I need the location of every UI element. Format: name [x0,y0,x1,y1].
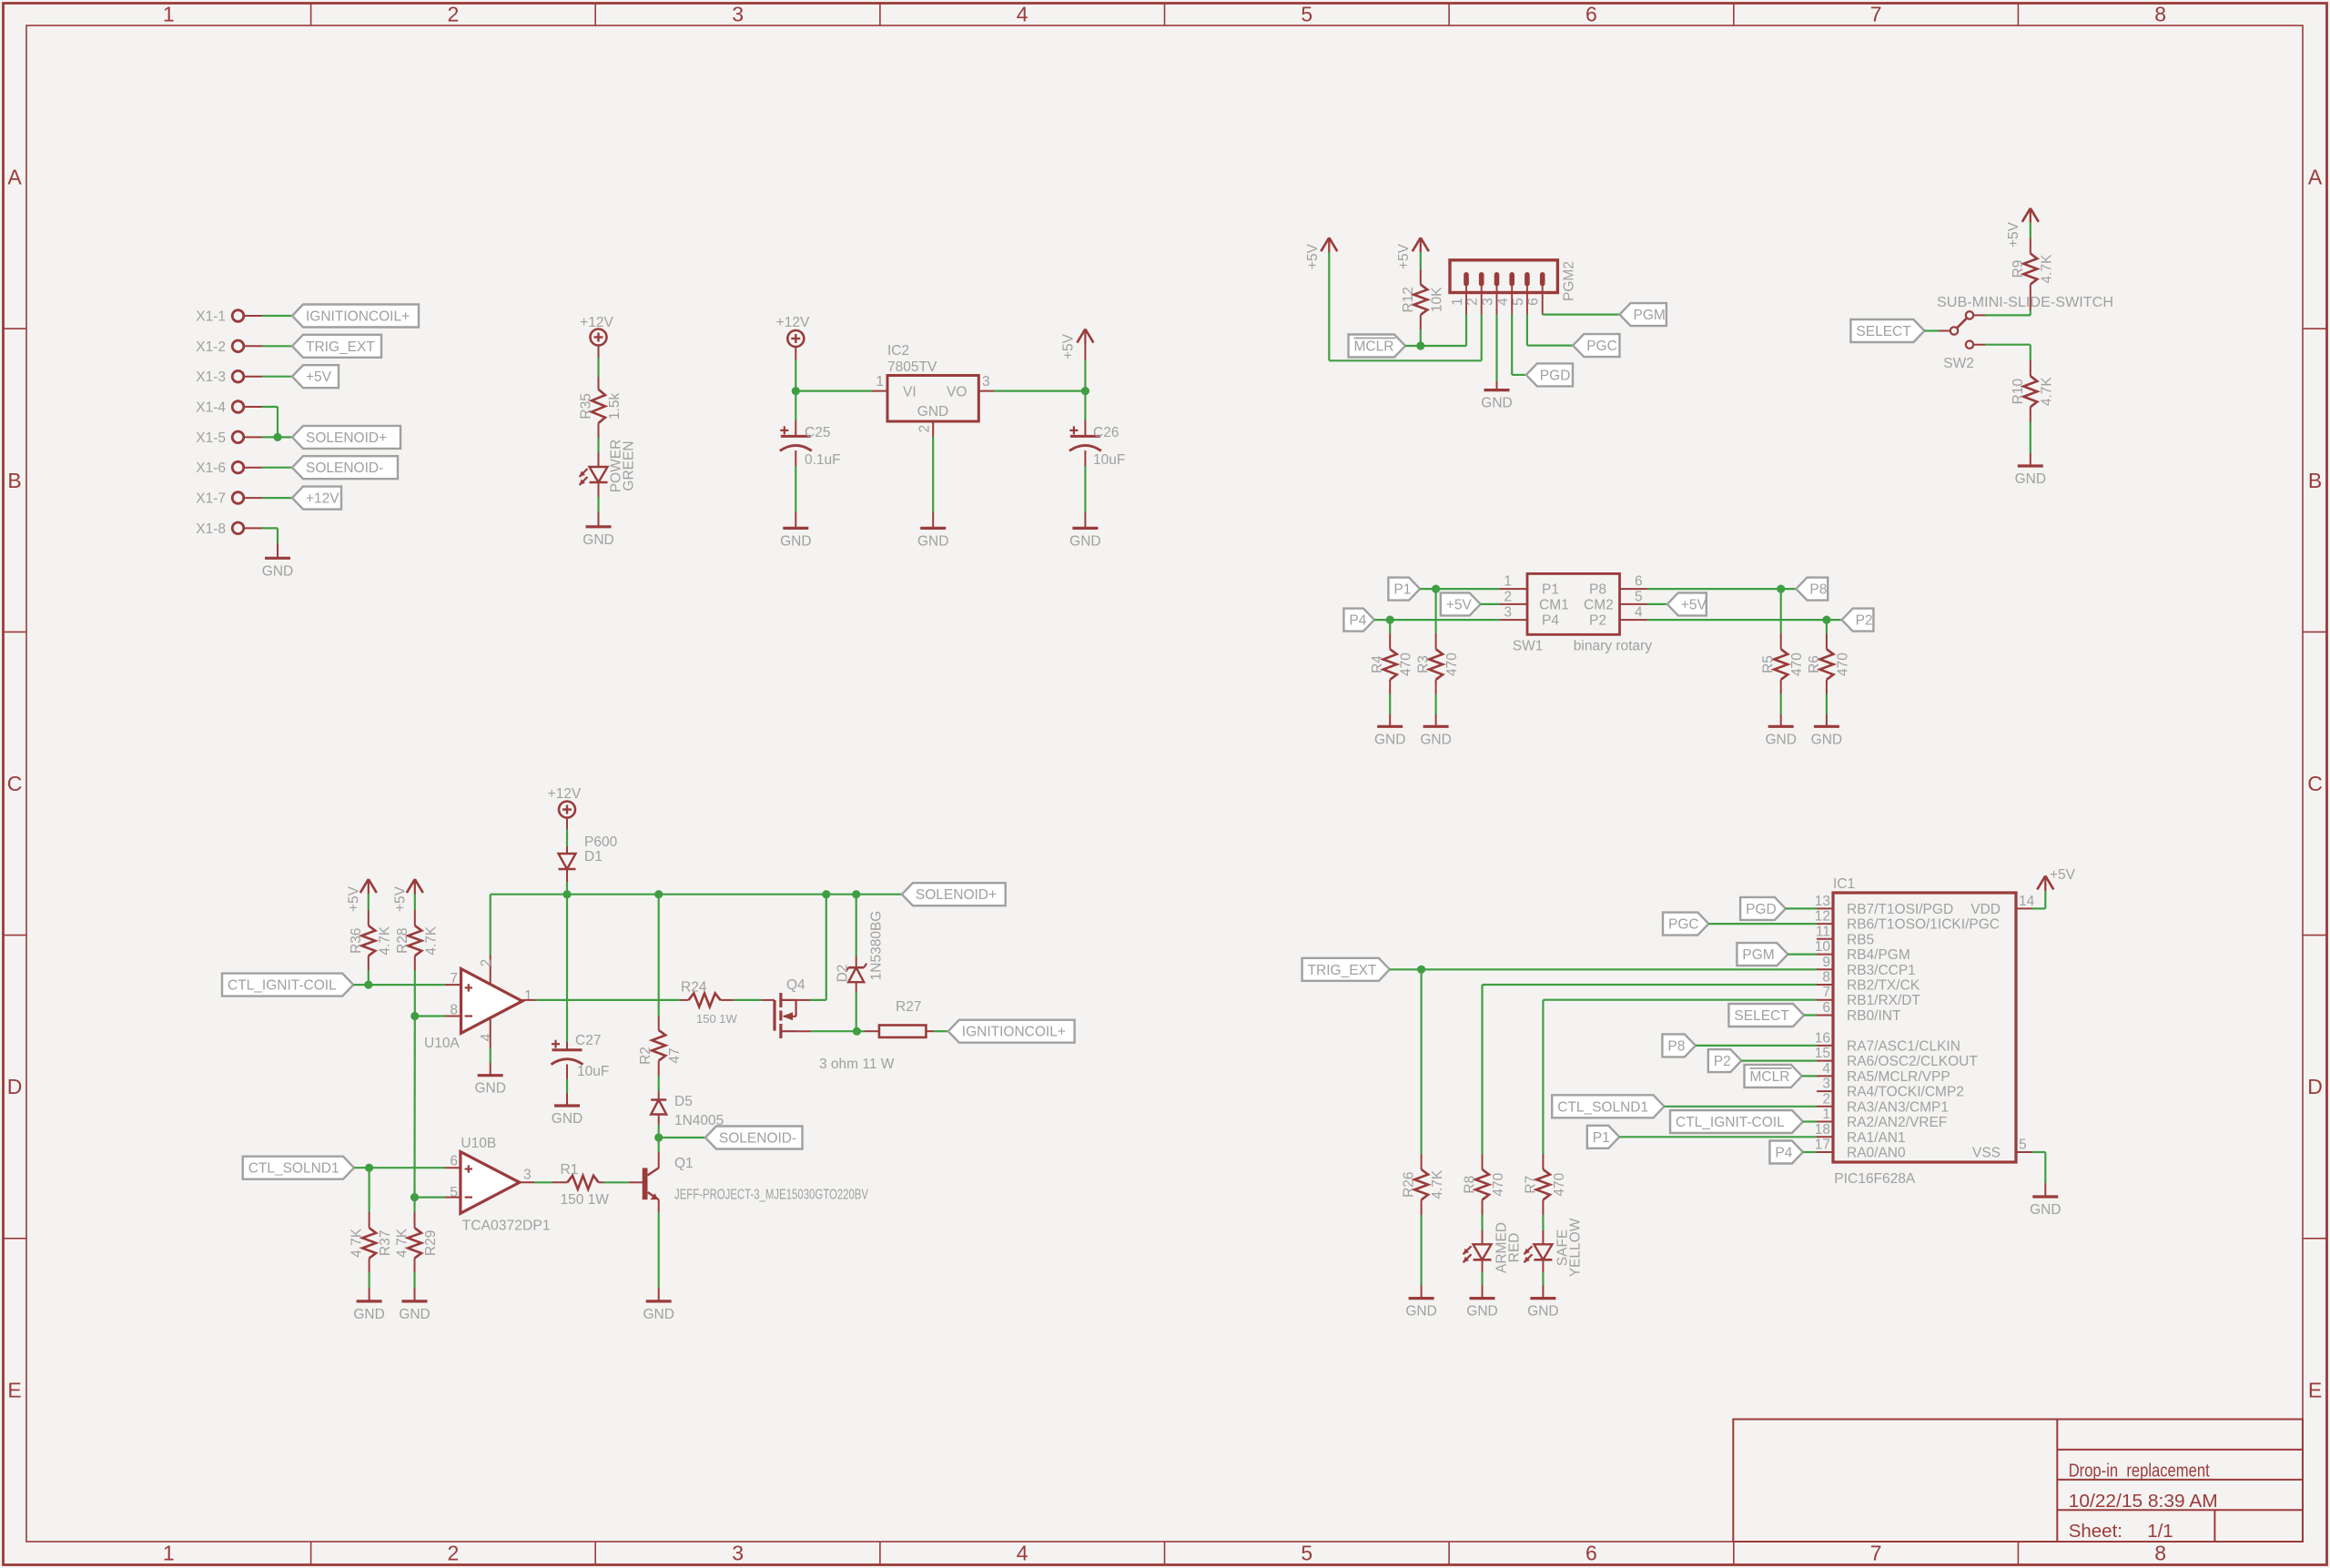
flag PGD at IC1 [1740,897,1786,920]
svg-text:X1-6: X1-6 [196,460,226,476]
svg-text:PIC16F628A: PIC16F628A [1834,1171,1916,1187]
svg-text:P1: P1 [1542,582,1559,598]
svg-text:3: 3 [1822,1077,1830,1092]
svg-text:P600: P600 [584,835,618,850]
svg-text:+5V: +5V [2050,867,2076,883]
resistor R24 [681,980,738,1027]
resistor R35 [579,389,623,423]
svg-text:5: 5 [1301,3,1312,26]
wire TRIG_EXT to pin 9 [1390,968,1817,970]
svg-text:RA6/OSC2/CLKOUT: RA6/OSC2/CLKOUT [1847,1054,1978,1069]
ground below IC2 [920,527,946,530]
resistor R26 [1402,1169,1446,1199]
flag +5V at SW1 right [1667,592,1707,615]
IC1 pin 11 RB5 [1816,924,1874,947]
wire R24 to Q4 gate [721,999,775,1001]
svg-text:SW2: SW2 [1943,356,1974,371]
svg-text:TCA0372DP1: TCA0372DP1 [462,1219,551,1234]
svg-text:U10B: U10B [461,1136,496,1151]
svg-text:GND: GND [2015,471,2046,487]
svg-text:P2: P2 [1589,613,1606,629]
svg-text:RA2/AN2/VREF: RA2/AN2/VREF [1847,1115,1947,1130]
connector pin X1-5 [196,430,244,446]
flag SOLENOID- at Q1 [705,1127,803,1149]
wire P1 to SW1 pin 1 [1420,588,1500,590]
svg-text:YELLOW: YELLOW [1567,1218,1583,1277]
wire pin8 node to U10A pin 8 [415,1015,461,1017]
wire PGM2 pin 4 to PGD [1512,315,1526,375]
svg-text:3: 3 [1481,298,1496,306]
supply +5V left of R12 [1305,238,1337,269]
junction X1-4/X1-5 [273,433,281,441]
wire SAFE LED to GND [1542,1259,1544,1298]
switch SW2 [1943,311,1974,371]
svg-text:B: B [2308,469,2322,492]
svg-text:8: 8 [2154,1542,2166,1565]
wire +12V to D1 [566,817,568,855]
wire R26 to GND [1421,1199,1423,1298]
wire MCLR flag to node [1405,345,1421,347]
svg-text:5: 5 [1635,589,1643,604]
svg-text:PGD: PGD [1746,902,1777,917]
wire R35 to LED [598,423,600,467]
wire node to PGM2 pin 1 [1421,315,1466,346]
resistor R36 [349,926,393,956]
svg-text:R7: R7 [1523,1176,1538,1194]
svg-text:4.7K: 4.7K [349,1228,365,1258]
wire CTL_SOLND1 to pin 2 [1665,1106,1818,1108]
IC1 pin 13 RB7/T1OSI/PGD [1815,894,1953,917]
svg-text:5: 5 [1301,1542,1312,1565]
svg-text:+5V: +5V [392,885,408,912]
svg-text:470: 470 [1552,1172,1567,1196]
svg-text:RA0/AN0: RA0/AN0 [1847,1146,1906,1161]
IC1 pin 12 RB6/T1OSO/1ICKI/PGC [1815,909,2000,933]
svg-text:RB0/INT: RB0/INT [1847,1008,1901,1024]
svg-text:D: D [2307,1075,2323,1098]
flag IGNITIONCOIL+ at R27 [948,1020,1075,1043]
wire rail to R2 [658,895,660,1030]
junction C26/VO [1081,387,1089,395]
svg-text:Q1: Q1 [674,1156,694,1171]
ground below R37 [357,1300,382,1302]
svg-text:7: 7 [1870,1542,1882,1565]
svg-text:2: 2 [1504,589,1512,604]
svg-text:10K: 10K [1429,287,1444,312]
SW1 right pin 5 [1620,589,1648,604]
svg-text:P1: P1 [1393,582,1411,598]
IC1 pin 14 VDD [1970,894,2034,917]
flag MCLR at PGM2 [1349,335,1406,358]
connector pin X1-8 [196,521,244,537]
junction D2/rail [852,890,860,898]
wire SW1 pin 6 to P8 [1647,588,1796,590]
resistor R9 [2011,254,2055,285]
PGM2 pin 1 lead [1450,286,1466,315]
wire +5V to R36 [368,894,370,926]
diode D1 P600 [559,835,618,869]
junction R37/input [365,1164,373,1172]
svg-text:R28: R28 [395,927,410,953]
IC1 pin 16 RA7/ASC1/CLKIN [1815,1030,1960,1054]
wire P2 to pin 15 [1741,1059,1817,1061]
svg-text:GND: GND [1374,732,1405,747]
svg-text:12: 12 [1815,909,1830,925]
wire R28 to U10A pin 8 node [414,956,416,1016]
svg-text:RA4/TOCKI/CMP2: RA4/TOCKI/CMP2 [1847,1085,1964,1100]
svg-text:PGC: PGC [1668,917,1699,933]
svg-text:4: 4 [1635,605,1643,621]
flag CTL_SOLND1 at U10B [243,1157,354,1179]
resistor R37 [349,1228,394,1258]
svg-text:GND: GND [917,533,948,549]
wire R29 node down [413,1198,415,1229]
wire U10A pin 4 to GND [490,1018,491,1076]
supply +5V above R36 [346,879,377,912]
svg-text:C26: C26 [1093,425,1119,440]
ground below POWER LED [586,525,612,528]
wire VI node to C25 [795,391,796,437]
svg-text:P2: P2 [1856,613,1873,629]
svg-text:+12V: +12V [306,491,339,507]
svg-text:3: 3 [732,3,744,26]
supply +5V above R28 [392,879,423,912]
junction Q4 drain/rail [822,890,830,898]
svg-text:RB5: RB5 [1847,932,1874,947]
svg-text:X1-2: X1-2 [196,339,226,355]
junction MCLR/R12 [1416,341,1424,349]
wire R8 to ARMED LED [1482,1199,1484,1244]
svg-text:MCLR: MCLR [1354,339,1394,355]
PGM2 pin 6 lead [1526,286,1543,315]
svg-text:3: 3 [523,1168,532,1183]
wire node to R27 [856,1030,879,1032]
flag CTL_IGNIT-COIL at IC1 [1670,1110,1803,1133]
flag P8 at IC1 [1662,1034,1696,1057]
supply +12V at IC2 input [776,315,810,347]
svg-text:470: 470 [1399,652,1414,676]
svg-text:6: 6 [1585,1542,1597,1565]
svg-text:10uF: 10uF [1093,452,1125,468]
svg-text:P4: P4 [1775,1146,1792,1161]
svg-text:PGC: PGC [1586,339,1617,354]
wire PGM to pin 10 [1788,953,1817,955]
op-amp U10A [424,959,532,1051]
svg-text:D1: D1 [584,849,603,865]
ground below R29 [402,1300,428,1302]
wire MCLR to pin 4 [1802,1075,1817,1077]
SW1 left pin 1 [1500,574,1527,590]
svg-text:P2: P2 [1714,1054,1731,1069]
resistor R12 [1401,285,1445,315]
svg-text:7: 7 [1822,985,1830,1000]
wire X1-6 to SOLENOID- [244,467,292,469]
flag SOLENOID+ at rail [902,883,1006,905]
wire CTL_IGNIT-COIL to pin 1 [1803,1120,1817,1122]
svg-text:VO: VO [947,385,967,400]
wire +5V to R28 [414,894,416,926]
junction P2/R6 [1822,616,1830,624]
resistor R2 [638,1030,683,1065]
svg-text:VDD: VDD [1970,902,2001,917]
svg-text:P4: P4 [1542,613,1559,629]
voltage regulator IC2 7805TV [876,343,989,432]
wire VO node to +5V [1084,343,1086,391]
rotary switch SW1 [1513,573,1652,653]
wire +12V to R35 [598,345,600,389]
flag SOLENOID- at X1-6 [292,456,398,479]
svg-text:GND: GND [643,1307,674,1322]
svg-text:10: 10 [1815,939,1831,955]
svg-text:X1-4: X1-4 [196,400,226,416]
svg-text:P1: P1 [1593,1130,1610,1146]
svg-text:RB7/T1OSI/PGD: RB7/T1OSI/PGD [1847,902,1953,917]
wire U10A output to R24 [522,999,689,1001]
op-amp U10B [450,1136,550,1234]
wire PGM2 pin 6 to PGM [1543,314,1620,316]
svg-text:1N5380BG: 1N5380BG [868,911,884,981]
svg-text:GND: GND [1527,1304,1558,1320]
svg-text:2: 2 [1822,1091,1830,1107]
svg-text:GND: GND [582,532,613,548]
ground below C25 [783,527,808,530]
svg-text:U10A: U10A [424,1036,460,1051]
wire C25 to GND [795,450,796,528]
SW1 left pin 3 [1500,605,1527,621]
svg-text:MCLR: MCLR [1750,1069,1790,1085]
IC1 pin 3 RA4/TOCKI/CMP2 [1817,1077,1964,1100]
supply +5V at IC2 output [1061,329,1094,359]
svg-text:1: 1 [876,374,884,389]
svg-text:SOLENOID-: SOLENOID- [306,460,383,476]
svg-text:GND: GND [917,404,948,420]
wire R37 to GND [369,1259,370,1301]
svg-text:X1-5: X1-5 [196,430,226,446]
svg-text:GND: GND [1481,396,1512,411]
svg-text:R27: R27 [896,999,921,1015]
flag CTL_IGNIT-COIL at U10A [222,974,353,996]
svg-text:CM1: CM1 [1539,597,1569,612]
IC1 pin 2 RA3/AN3/CMP1 [1817,1091,1949,1115]
svg-text:1.5k: 1.5k [607,393,623,420]
svg-text:GND: GND [2030,1202,2061,1218]
svg-text:X1-3: X1-3 [196,369,226,385]
svg-text:3: 3 [732,1542,744,1565]
junction P1/R3 [1432,585,1440,593]
svg-text:D: D [7,1075,23,1098]
svg-text:R9: R9 [2011,260,2026,278]
svg-text:PGM: PGM [1634,308,1666,323]
svg-text:10/22/15 8:39 AM: 10/22/15 8:39 AM [2069,1491,2218,1512]
svg-text:RB1/RX/DT: RB1/RX/DT [1847,993,1920,1008]
svg-text:4.7K: 4.7K [423,926,439,956]
svg-text:TRIG_EXT: TRIG_EXT [1308,963,1377,978]
svg-text:1: 1 [524,988,532,1004]
wire node to R5 [1780,589,1782,649]
svg-text:R29: R29 [423,1230,439,1256]
svg-text:16: 16 [1815,1030,1830,1046]
svg-text:+5V: +5V [1061,333,1077,359]
capacitor C26 [1069,425,1125,468]
svg-text:IC2: IC2 [887,343,909,359]
svg-text:470: 470 [1491,1172,1506,1196]
svg-text:C: C [2307,772,2323,795]
junction C25/VI [792,387,800,395]
flag PGC at IC1 [1663,913,1708,936]
svg-text:RA5/MCLR/VPP: RA5/MCLR/VPP [1847,1069,1950,1085]
wire IC2 pin 3 to VO node [978,390,1085,392]
flag +12V at X1-7 [292,487,341,510]
transistor Q4 MOSFET [775,977,805,1038]
svg-text:1: 1 [1504,574,1512,590]
svg-text:PGM2: PGM2 [1562,261,1577,301]
wire LED to GND [598,482,600,527]
IC1 pin 5 VSS [1972,1138,2032,1161]
connector pin X1-2 [196,339,244,355]
svg-text:SELECT: SELECT [1734,1008,1789,1024]
svg-text:4: 4 [1495,298,1511,306]
svg-text:GND: GND [1765,732,1796,747]
svg-text:8: 8 [2154,3,2166,26]
svg-text:2: 2 [917,425,933,433]
ground below C26 [1072,527,1098,530]
flag PGM at PGM2 [1620,303,1666,326]
svg-text:+12V: +12V [548,786,582,802]
svg-text:R2: R2 [638,1047,653,1065]
flag P1 at SW1 [1388,578,1420,601]
wire X1-2 to TRIG_EXT [244,345,292,347]
svg-text:CM2: CM2 [1584,597,1614,612]
PGM2 pin 3 lead [1481,286,1497,315]
svg-text:CTL_IGNIT-COIL: CTL_IGNIT-COIL [1676,1115,1785,1130]
wire U10A pin8 node down to U10B pin5 node [413,1017,415,1198]
supply +5V above R9 [2006,208,2039,248]
wire SW2 throw 2 to R10 [1974,345,2031,377]
svg-text:+5V: +5V [1446,597,1473,612]
ground below R10 [2018,464,2043,467]
SW1 left pin 2 [1500,589,1527,604]
junction P4/R4 [1386,616,1394,624]
wire IC2 pin 2 to GND [932,421,934,528]
svg-text:SELECT: SELECT [1856,324,1911,339]
svg-text:4: 4 [1822,1061,1830,1077]
wire +5V to R12 [1420,252,1422,285]
svg-text:R36: R36 [349,927,364,953]
svg-text:+12V: +12V [580,315,613,330]
svg-text:P4: P4 [1349,613,1366,629]
wire CTL_SOLND1 to U10B pin 6 [354,1167,461,1168]
svg-text:X1-7: X1-7 [196,491,226,507]
flag +5V at SW1 left [1441,592,1481,615]
svg-text:470: 470 [1835,652,1850,676]
svg-text:4.7K: 4.7K [2039,254,2054,284]
wire D1 to rail [566,869,568,895]
capacitor C25 [780,425,841,468]
svg-text:GND: GND [353,1307,384,1322]
svg-text:6: 6 [1585,3,1597,26]
svg-text:4: 4 [1017,3,1028,26]
wire VDD to +5V [2032,883,2045,908]
wire Q1 collector to SOLENOID- node [658,1138,660,1168]
IC1 pin 6 RB0/INT [1817,1000,1901,1024]
ground below R3 [1423,725,1449,728]
svg-text:R4: R4 [1370,655,1385,673]
wire VI node to IC2 pin 1 [795,390,887,392]
IC1 pin 7 RB1/RX/DT [1817,985,1920,1008]
svg-text:RA7/ASC1/CLKIN: RA7/ASC1/CLKIN [1847,1038,1960,1054]
wire D2 anode down [856,982,857,1031]
wire VSS to GND [2032,1152,2045,1197]
PGM2 pin 4 lead [1495,286,1512,315]
svg-text:Q4: Q4 [786,977,805,993]
svg-text:GND: GND [1811,732,1842,747]
wire SELECT to SW2 common [1924,329,1950,331]
svg-text:R35: R35 [579,393,594,419]
wire P1 to pin 18 [1619,1136,1817,1138]
IC1 pin 1 RA2/AN2/VREF [1817,1107,1947,1130]
wire R4 to GND [1389,680,1391,727]
wire R2 to D5 [658,1061,660,1100]
wire PGD to pin 13 [1786,907,1817,909]
svg-text:A: A [2308,166,2323,189]
flag TRIG_EXT at IC1 [1302,958,1390,981]
svg-text:+5V: +5V [1396,243,1412,269]
svg-text:6: 6 [450,1154,458,1169]
svg-text:+5V: +5V [306,369,332,385]
svg-text:IGNITIONCOIL+: IGNITIONCOIL+ [962,1025,1066,1040]
transistor Q1 [643,1156,869,1202]
svg-text:B: B [7,469,21,492]
svg-text:P8: P8 [1667,1038,1685,1054]
wire X1-8 to GND [244,528,278,558]
wire X1-3 to +5V [244,376,292,378]
wire +5V to SW1 pin 2 [1481,603,1500,605]
svg-text:A: A [7,166,22,189]
svg-text:R24: R24 [681,980,707,996]
flag MCLR at IC1 [1745,1065,1802,1087]
resistor R29 [395,1228,440,1258]
IC1 pin 17 RA0/AN0 [1815,1138,1906,1161]
junction TRIG_EXT/R26 [1417,966,1425,974]
flag SOLENOID+ at X1-5 [292,426,400,449]
flag P1 at IC1 [1587,1126,1619,1148]
connector pin X1-7 [196,491,244,507]
wire D5 to SOLENOID- node [658,1115,660,1138]
svg-text:4.7K: 4.7K [1430,1169,1445,1199]
wire rail down to U10A pin 2 [490,895,491,985]
resistor R27 3 ohm [819,999,926,1072]
wire Q1 emitter to GND [658,1199,660,1301]
resistor R3 [1416,649,1461,680]
ground below C27 [554,1104,580,1107]
wire SW1 pin 4 to P2 [1647,619,1842,621]
connector pin X1-3 [196,369,244,385]
svg-text:5: 5 [2019,1138,2027,1153]
svg-text:GND: GND [1420,732,1451,747]
svg-text:E: E [2308,1378,2322,1401]
ground below R6 [1814,725,1839,728]
junction Q4 source/D2/R27 [853,1027,861,1036]
wire R27 to IGNITIONCOIL+ [926,1030,947,1032]
svg-text:P8: P8 [1589,582,1606,598]
wire PGM2 pin 3 to GND [1495,315,1497,390]
IC1 pin 9 RB3/CCP1 [1817,955,1916,978]
IC IC1 PIC16F628A box [1833,876,2016,1187]
SW1 right pin 4 [1620,605,1648,621]
wire R29 to GND [414,1259,416,1301]
svg-text:CTL_SOLND1: CTL_SOLND1 [1557,1099,1648,1115]
junction R29/U10B pin 5 [410,1193,419,1201]
